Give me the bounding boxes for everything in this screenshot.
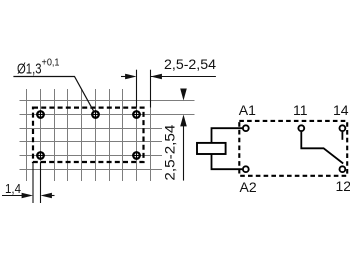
coil wire from A1 xyxy=(212,128,243,143)
relay outline (dashed) xyxy=(239,121,347,176)
coil K1 xyxy=(197,143,226,154)
svg-text:2,5-2,54: 2,5-2,54 xyxy=(162,124,178,180)
hole diameter leader line xyxy=(13,77,94,112)
terminal 11 xyxy=(298,125,304,131)
top pitch dimension extension lines xyxy=(137,70,151,108)
svg-text:11: 11 xyxy=(293,102,308,118)
bottom 1,4 dimension line + arrows xyxy=(2,195,55,197)
contact stub at 14 xyxy=(341,132,343,140)
contact blade from 11 to 12 xyxy=(301,132,343,164)
svg-text:A2: A2 xyxy=(240,179,257,195)
right pitch dimension arrows xyxy=(180,89,187,101)
hole top-right xyxy=(132,110,141,119)
hole bottom-right xyxy=(132,151,141,160)
PCB grid vertical lines xyxy=(27,89,151,181)
svg-text:+0,1: +0,1 xyxy=(42,57,60,68)
svg-text:14: 14 xyxy=(333,102,349,118)
svg-text:1,4: 1,4 xyxy=(5,181,21,196)
terminal 14 xyxy=(340,125,346,131)
svg-text:A1: A1 xyxy=(239,102,256,118)
hole top-left xyxy=(36,110,45,119)
right pitch dimension tail xyxy=(183,119,185,181)
PCB grid horizontal lines xyxy=(20,101,195,170)
footprint outline (dashed) xyxy=(33,108,144,162)
hole bottom-left xyxy=(36,151,45,160)
svg-text:12: 12 xyxy=(336,178,350,194)
top pitch dimension line + arrows xyxy=(121,76,216,78)
terminal 12 xyxy=(340,166,346,172)
terminal A2 xyxy=(243,166,249,172)
hole top-middle xyxy=(91,110,100,119)
svg-text:2,5-2,54: 2,5-2,54 xyxy=(164,56,216,72)
terminal A1 xyxy=(243,125,249,131)
svg-text:Ø1,3: Ø1,3 xyxy=(17,60,42,77)
bottom 1,4 dimension extension lines xyxy=(33,162,41,203)
coil wire to A2 xyxy=(212,154,243,169)
